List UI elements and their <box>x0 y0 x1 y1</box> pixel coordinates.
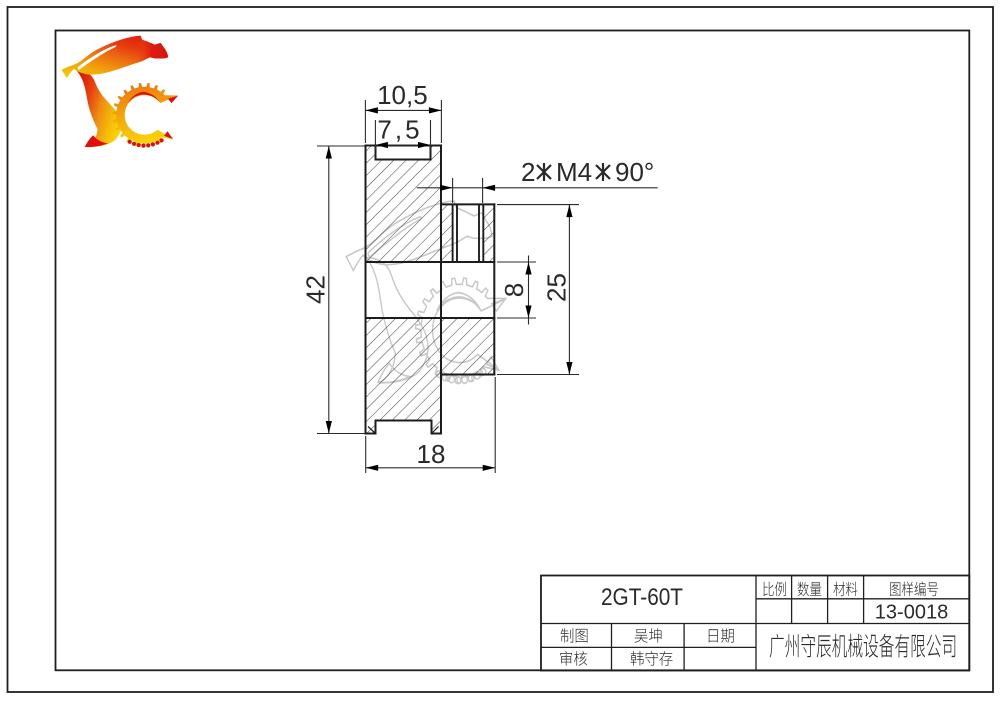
dimension 8 line and arrows <box>528 256 530 325</box>
svg-text:18: 18 <box>417 439 446 469</box>
svg-text:90°: 90° <box>615 157 654 187</box>
dimension 7,5 extension lines <box>374 120 376 151</box>
dimension 18 line and arrows <box>366 467 496 469</box>
dimension 25 line and arrows <box>568 205 570 375</box>
pulley silhouette left edge <box>365 146 367 434</box>
company logo SC <box>62 36 179 148</box>
title block outer box <box>541 576 969 671</box>
bore bottom line <box>366 317 495 319</box>
bore top line <box>366 261 495 263</box>
bottom edge with groove notch <box>366 421 442 434</box>
label bili (scale) <box>763 582 786 597</box>
pulley body lower cross-section hatch <box>366 318 442 434</box>
dimension 8 extension lines <box>497 261 536 263</box>
hub upper-right hatch strip <box>483 204 494 262</box>
svg-text:13-0018: 13-0018 <box>875 602 948 624</box>
company name <box>770 634 956 658</box>
dimension 18 extension lines <box>365 436 367 473</box>
M4 tapped hole thread lines <box>453 204 484 262</box>
svg-text:2: 2 <box>521 157 535 187</box>
name Wu Kun <box>635 628 662 643</box>
svg-text:M4: M4 <box>556 157 592 187</box>
leader line for 2*M4*90 <box>417 187 658 189</box>
dimension 10,5 line and arrows <box>365 109 441 111</box>
label zhitu (drawn by) <box>561 628 588 642</box>
svg-text:2GT-60T: 2GT-60T <box>601 584 683 611</box>
label cailiao (material) <box>833 582 857 597</box>
hub top edge <box>441 203 494 205</box>
dimension 42 line and arrows <box>328 146 330 434</box>
hub right edge <box>493 204 495 374</box>
svg-text:25: 25 <box>541 273 571 302</box>
dimension 7,5 line and arrows <box>375 144 430 146</box>
watermark logo outline <box>346 201 506 384</box>
name Han Shoucun <box>631 651 673 666</box>
label tuyang bianhao (drawing no.) <box>890 582 938 597</box>
svg-text:10,5: 10,5 <box>377 80 428 110</box>
label riqi (date) <box>709 628 734 642</box>
M4 extension lines <box>452 178 454 203</box>
bottom-right foot chamfer <box>432 427 439 434</box>
dimension 10,5 extension lines <box>364 100 366 143</box>
svg-text:7,5: 7,5 <box>377 115 422 145</box>
hub upper-left hatch strip <box>441 204 453 262</box>
dimension 25 extension lines <box>497 204 579 206</box>
hub bottom edge <box>441 374 494 376</box>
pulley top edge <box>366 145 442 147</box>
bottom-left foot chamfer <box>368 427 376 434</box>
hub lower hatch <box>441 318 494 375</box>
label shuliang (quantity) <box>798 582 822 597</box>
top groove notch <box>376 146 431 160</box>
dimension 42 extension lines <box>317 145 365 147</box>
pulley body upper cross-section hatch <box>366 146 442 263</box>
svg-text:8: 8 <box>499 283 529 297</box>
svg-text:42: 42 <box>301 275 331 304</box>
M4 outside arrows <box>440 185 453 191</box>
pulley right edge (body) <box>440 146 442 434</box>
label shenhe (checked) <box>560 651 587 666</box>
title block grid lines <box>541 576 969 671</box>
